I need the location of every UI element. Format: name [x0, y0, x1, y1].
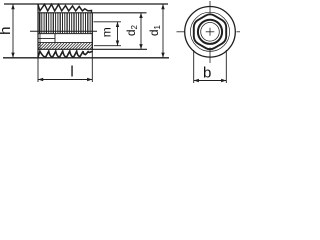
svg-text:m: m	[100, 27, 114, 37]
svg-text:h: h	[0, 27, 14, 35]
svg-text:b: b	[203, 65, 211, 82]
svg-text:l: l	[70, 64, 73, 81]
